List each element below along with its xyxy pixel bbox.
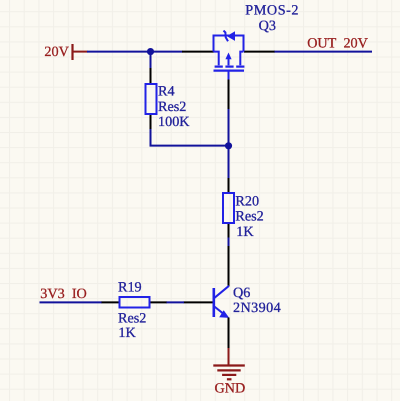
transistor Q3 PMOS-2 [182,31,275,109]
Q3 bulk arrow [225,53,231,60]
svg-text:2N3904: 2N3904 [233,300,281,316]
Q3 source contact [214,52,219,66]
ground GND [213,348,245,397]
Q3 gate lead [228,71,230,80]
Q3 drain contact [240,52,243,66]
Q3 gate pin [228,80,230,110]
svg-text:20V: 20V [44,44,69,60]
svg-text:Res2: Res2 [158,99,186,115]
Q6 emitter arrow [219,310,229,318]
power port 20V [44,44,87,60]
wire OUT [275,51,373,53]
Q3 body diode cathode [224,31,229,42]
Q6 base pin [184,301,214,303]
svg-text:OUT 20V: OUT 20V [307,36,368,52]
svg-text:1K: 1K [118,325,136,341]
wire 20V rail [87,51,183,53]
wire R20 to Q6 collector [228,238,230,247]
Q6 emitter pin [228,318,230,349]
svg-text:1K: 1K [236,224,254,240]
wire gate vertical [228,109,230,179]
resistor R4 [146,68,157,130]
wire R4 bottom to gate node [151,129,229,146]
svg-text:3V3 IO: 3V3 IO [40,286,87,302]
svg-text:R19: R19 [118,280,142,296]
svg-text:Q6: Q6 [233,285,250,301]
wire 3V3 to R19 [40,301,103,303]
svg-text:100K: 100K [158,114,190,130]
junction 20V/R4 [147,48,154,55]
svg-text:Res2: Res2 [235,209,263,225]
Q6 base bar [213,288,216,317]
svg-text:R4: R4 [158,84,175,100]
Q6 collector pin [228,246,230,286]
svg-text:R20: R20 [235,193,259,209]
resistor R20 [223,178,234,238]
Q3 body diode triangle [227,31,235,41]
resistor R19 [102,297,168,308]
svg-text:Q3: Q3 [259,18,276,34]
wire to R4 top [150,52,152,68]
Q6 collector stroke [215,286,230,298]
wire R19 to base [167,301,185,303]
Q3 source pin [182,51,214,53]
svg-text:PMOS-2: PMOS-2 [245,2,299,18]
Q3 drain pin [244,51,275,53]
Q3 body diode loop [214,36,244,52]
svg-text:GND: GND [215,381,246,397]
Q6 emitter stroke [215,307,224,314]
transistor Q6 2N3904 [184,246,230,348]
Q3 gate plate [214,69,245,71]
junction gate node [225,142,232,149]
